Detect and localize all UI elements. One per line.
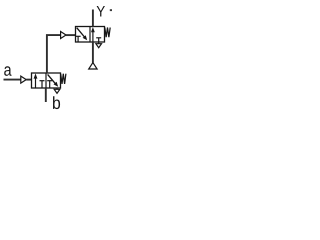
cropped mark top-right corner bbox=[110, 9, 112, 11]
label a bbox=[4, 66, 11, 76]
valve V1 right cell diagonal passage bbox=[48, 74, 56, 84]
wire Y label to valve V2 top port bbox=[92, 10, 94, 27]
valve V1 left cell passage arrow bbox=[35, 78, 37, 89]
valve V1 right cell blocked port bbox=[49, 81, 51, 88]
wire V1 output to V2 pilot bbox=[47, 35, 61, 73]
valve V1 left cell blocked port bbox=[41, 81, 43, 88]
spring valve V1 bbox=[61, 74, 66, 84]
label Y bbox=[97, 6, 105, 16]
spring valve V2 bbox=[105, 28, 110, 38]
valve V2 right cell blocked port bbox=[98, 38, 100, 42]
pilot triangle valve V1 bbox=[21, 76, 26, 83]
pressure source triangle bbox=[89, 63, 97, 69]
valve V2 left cell blocked port bbox=[77, 37, 79, 42]
exhaust triangle valve V1 bbox=[56, 88, 58, 89]
valve V2 left cell diagonal passage bbox=[77, 28, 85, 37]
wire V2 pressure port down bbox=[92, 42, 94, 63]
valve V1 body bbox=[32, 73, 61, 88]
exhaust triangle valve V2 bbox=[98, 42, 100, 44]
wire V1 pressure port down bbox=[45, 88, 47, 102]
wire pilot to valve V1 bbox=[26, 79, 31, 81]
wire a pilot lead-in bbox=[4, 79, 21, 81]
valve V2 body bbox=[76, 27, 105, 43]
valve V2 right cell passage arrow bbox=[92, 31, 94, 42]
pilot triangle valve V2 bbox=[61, 32, 66, 39]
wire pilot to valve V2 bbox=[66, 34, 76, 36]
label b bbox=[53, 96, 60, 109]
